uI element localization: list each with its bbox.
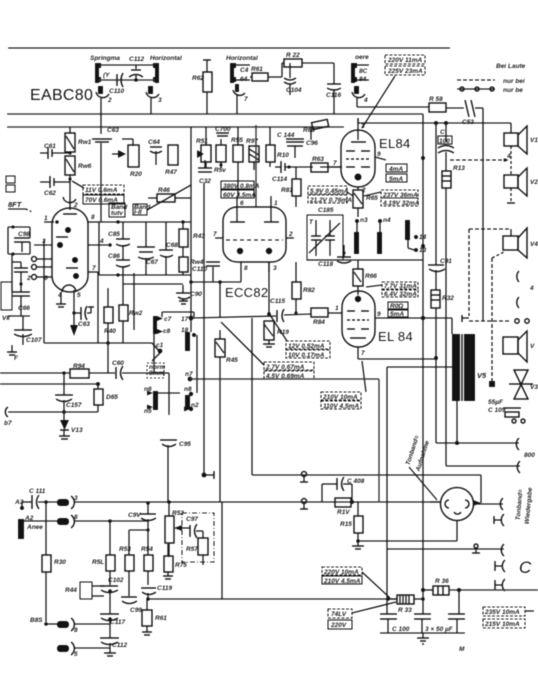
- wire ECC82 pin3 down: [267, 262, 271, 316]
- svg-text:C95: C95: [179, 441, 191, 448]
- svg-text:R5L: R5L: [92, 559, 104, 566]
- svg-text:210V 10mA: 210V 10mA: [322, 394, 358, 401]
- connector block left: [95, 63, 159, 83]
- svg-text:2.7V 0.67mA: 2.7V 0.67mA: [265, 364, 305, 371]
- resistor R84: [193, 305, 342, 326]
- svg-text:R81: R81: [281, 187, 293, 194]
- svg-text:2: 2: [288, 231, 293, 238]
- pin 2 bottom / resistor R65: [353, 187, 378, 217]
- ECC82 pin labels: [213, 231, 294, 272]
- wire B+ line: [423, 588, 538, 592]
- svg-text:EL84: EL84: [379, 136, 411, 151]
- svg-text:2: 2: [26, 275, 31, 282]
- EL84 top tube envelope: [341, 130, 375, 187]
- capacitor C104: [284, 63, 302, 95]
- svg-text:R55: R55: [231, 137, 243, 144]
- resistor R46: [148, 187, 191, 202]
- svg-text:R 22: R 22: [286, 52, 300, 59]
- svg-text:7: 7: [213, 231, 217, 238]
- svg-text:n4: n4: [383, 217, 391, 224]
- svg-text:380V 0.8mA: 380V 0.8mA: [223, 183, 260, 190]
- svg-text:C63: C63: [107, 127, 119, 134]
- wire AM bus: [7, 113, 423, 115]
- resistor D65: [94, 384, 118, 412]
- capacitor C90: [176, 285, 202, 304]
- svg-text:M: M: [459, 646, 465, 653]
- wire x134: [133, 273, 135, 330]
- annotation line to 210V box: [362, 361, 366, 392]
- svg-text:oere: oere: [355, 54, 369, 61]
- resistor R82: [292, 262, 315, 315]
- capacitor C53: [462, 100, 483, 321]
- volume tap symbol: [202, 471, 215, 479]
- pin 9 wire: [375, 151, 386, 160]
- svg-text:I-II: I-II: [134, 209, 142, 216]
- switch contacts 13 14: [405, 220, 427, 254]
- capacitor C117: [100, 614, 125, 626]
- svg-text:5mA: 5mA: [390, 311, 404, 318]
- svg-text:D65: D65: [106, 394, 118, 401]
- heater link: [123, 275, 183, 284]
- NF box outline: [252, 475, 481, 506]
- svg-text:R44: R44: [65, 587, 77, 594]
- label EL84 top: [379, 136, 411, 151]
- svg-text:R46: R46: [158, 187, 170, 194]
- annotation line from switch: [221, 322, 264, 365]
- resistor R58: [429, 96, 464, 112]
- pot R52: [129, 500, 190, 557]
- switch frame: [162, 312, 194, 317]
- resistor R44: [65, 582, 104, 599]
- capacitors C85 C86: [108, 222, 130, 275]
- svg-text:7: 7: [333, 160, 337, 167]
- svg-text:R66: R66: [365, 273, 377, 280]
- jack input b: [30, 617, 110, 634]
- resistor R47: [165, 145, 178, 176]
- wire B+ transformer feed: [387, 366, 452, 368]
- resistor R54: [141, 530, 153, 585]
- contact c7: [153, 316, 172, 334]
- svg-text:8C: 8C: [359, 68, 368, 75]
- svg-text:C90: C90: [190, 291, 202, 298]
- DIN connector: [441, 488, 474, 521]
- capacitor C95: [160, 440, 191, 502]
- wire ground bottom line: [387, 544, 504, 556]
- svg-text:220V: 220V: [330, 622, 347, 629]
- pin 7 bottom: [358, 347, 436, 359]
- box Band right: [109, 203, 128, 217]
- tube pin 4 right: [88, 238, 112, 247]
- resistor R50: [214, 139, 226, 174]
- svg-text:Rw2: Rw2: [129, 310, 143, 317]
- svg-text:C61: C61: [44, 143, 56, 150]
- svg-text:5mA: 5mA: [389, 176, 403, 183]
- svg-text:64: 64: [240, 76, 248, 83]
- dashed line speakers: [450, 153, 511, 162]
- wire x108 down: [62, 343, 108, 375]
- resistor R1V: [335, 498, 354, 516]
- capacitor C99: [121, 597, 142, 614]
- EL84 top interior: [346, 118, 370, 181]
- svg-text:Bei Laute: Bei Laute: [496, 63, 526, 70]
- label Bei Laute: [496, 63, 526, 70]
- jack chassis bottom: [300, 499, 308, 510]
- svg-text:Rw1: Rw1: [78, 139, 92, 146]
- svg-text:4.19V 32mA: 4.19V 32mA: [382, 200, 420, 207]
- resistor R53: [119, 530, 134, 596]
- svg-text:Anee: Anee: [26, 524, 43, 531]
- capacitor C66: [12, 282, 30, 316]
- svg-text:R62: R62: [192, 75, 204, 82]
- svg-text:5: 5: [74, 651, 78, 658]
- resistor R52b: [92, 521, 115, 585]
- label EABC80: [30, 87, 93, 104]
- svg-text:9: 9: [377, 151, 381, 158]
- tube top pin: [63, 196, 78, 214]
- svg-text:225V 23mA: 225V 23mA: [387, 68, 423, 75]
- svg-text:R15: R15: [340, 521, 352, 528]
- wire vertical bus x191: [190, 127, 192, 332]
- resistor Rw1: [65, 127, 92, 155]
- svg-text:c8: c8: [163, 328, 171, 335]
- svg-text:V2: V2: [530, 179, 538, 186]
- tube pin 3 left: [34, 238, 52, 245]
- resistor R22: [282, 52, 334, 77]
- wire grid line: [320, 166, 342, 168]
- svg-text:C 100: C 100: [392, 626, 410, 633]
- wire vertical x379: [378, 379, 380, 502]
- svg-text:C 144: C 144: [277, 132, 295, 139]
- pin 9 wire bottom EL84: [375, 311, 452, 320]
- resistor R43: [179, 222, 205, 247]
- jack T symbol: [494, 514, 504, 526]
- electrolytic C100 group: [380, 590, 465, 633]
- svg-text:8FT: 8FT: [8, 200, 23, 209]
- coil C63: [92, 114, 119, 222]
- contact c1: [152, 342, 164, 361]
- wire R94 line: [0, 363, 115, 378]
- svg-text:R5v: R5v: [214, 167, 226, 174]
- capacitor C102: [100, 577, 124, 614]
- capacitor C107: [8, 316, 42, 345]
- capacitor C114: [272, 161, 313, 183]
- svg-text:C63: C63: [78, 321, 90, 328]
- capacitor C144: [277, 132, 318, 158]
- svg-text:C: C: [440, 129, 445, 136]
- resistor R57: [186, 531, 208, 565]
- svg-text:n2: n2: [191, 402, 199, 409]
- contact n2: [184, 402, 199, 412]
- label oere: [355, 54, 369, 61]
- kohm boxes bottom: [388, 302, 408, 318]
- svg-text:110V 4.5mA: 110V 4.5mA: [323, 403, 359, 410]
- tube pin 5 bottom with arrow: [70, 290, 81, 336]
- svg-text:R32: R32: [442, 295, 454, 302]
- resistor R55: [231, 127, 243, 196]
- svg-text:C114: C114: [272, 176, 287, 183]
- resistor Rw6: [65, 156, 92, 196]
- resistor R62: [192, 60, 212, 114]
- capacitor C112b: [100, 619, 127, 653]
- dash-dot box: [182, 513, 214, 562]
- annotation boxes 235V: [483, 607, 534, 628]
- capacitor C94: [128, 501, 156, 531]
- annotation line to DIN: [409, 467, 437, 500]
- resistor R81: [281, 167, 301, 207]
- svg-text:8: 8: [244, 265, 248, 272]
- svg-text:2: 2: [73, 202, 78, 209]
- capacitor C109: [488, 399, 525, 423]
- svg-text:C110: C110: [109, 88, 124, 95]
- svg-text:R61: R61: [155, 615, 167, 622]
- dashed speaker box: [469, 229, 511, 387]
- EL84 bottom interior: [347, 296, 369, 338]
- svg-text:7: 7: [361, 350, 365, 357]
- capacitor C112: [129, 56, 144, 82]
- svg-text:C96: C96: [306, 140, 318, 147]
- annotation line to EL84: [362, 76, 395, 128]
- svg-text:R 58: R 58: [429, 96, 443, 103]
- capacitor C81: [428, 258, 452, 290]
- wire DIN right jack: [474, 498, 503, 510]
- svg-text:B8S: B8S: [30, 617, 43, 624]
- svg-text:C110: C110: [192, 266, 207, 273]
- svg-text:5.9V 0.45mA: 5.9V 0.45mA: [310, 188, 349, 195]
- jack 2: [96, 86, 112, 114]
- svg-text:V13: V13: [71, 427, 83, 434]
- tube pin 7 right: [88, 265, 98, 343]
- svg-text:3: 3: [158, 97, 162, 104]
- svg-text:V1: V1: [530, 137, 538, 144]
- wire vertical gray x256: [255, 125, 257, 207]
- svg-text:8: 8: [91, 214, 95, 221]
- svg-text:b7: b7: [4, 420, 12, 427]
- svg-text:R63: R63: [312, 156, 324, 163]
- wire transformer secondary: [456, 401, 458, 443]
- jack 4: [352, 86, 429, 107]
- resistor R97 hatched: [246, 138, 259, 170]
- resistor R10: [266, 127, 289, 167]
- svg-text:55µF: 55µF: [488, 399, 504, 406]
- capacitor C60: [112, 360, 154, 380]
- resistor R61b: [142, 599, 167, 635]
- svg-text:C104: C104: [286, 87, 302, 94]
- capacitor C118: [318, 245, 351, 268]
- svg-text:R61: R61: [251, 66, 263, 73]
- wire gray line left: [0, 382, 100, 386]
- svg-text:4: 4: [506, 153, 511, 160]
- dashed box norm 8mm: [147, 363, 165, 378]
- jack input 8: [24, 514, 78, 528]
- svg-text:4: 4: [99, 238, 104, 245]
- band switch boxes: [6, 176, 15, 192]
- svg-text:C185: C185: [318, 207, 334, 214]
- svg-text:C66: C66: [18, 305, 30, 312]
- svg-text:n3: n3: [360, 217, 368, 224]
- svg-text:C157: C157: [66, 402, 82, 409]
- svg-text:5: 5: [77, 292, 81, 299]
- svg-text:R 33: R 33: [398, 607, 412, 614]
- svg-text:n5: n5: [144, 408, 152, 415]
- annotation boxes 220V bottom: [322, 567, 390, 598]
- svg-text:7: 7: [92, 265, 96, 272]
- svg-text:C99: C99: [130, 607, 142, 614]
- svg-text:C119: C119: [157, 585, 172, 592]
- svg-text:C97: C97: [186, 516, 198, 523]
- svg-text:R45: R45: [226, 357, 238, 364]
- ground bottom left: [104, 653, 116, 656]
- tube pin 4 ground: [56, 292, 66, 307]
- svg-text:R82: R82: [303, 287, 315, 294]
- annotation boxes 237V: [364, 190, 420, 207]
- wire main NF line: [74, 501, 441, 503]
- trimmer box C185: [307, 207, 343, 260]
- svg-text:R 36: R 36: [435, 578, 449, 585]
- resistor R75: [163, 544, 187, 579]
- svg-text:C102: C102: [108, 577, 124, 584]
- contacts n6 n5: [144, 386, 180, 415]
- contact 18: [181, 327, 197, 393]
- svg-text:3: 3: [74, 495, 78, 502]
- resistor R20: [128, 145, 142, 178]
- svg-text:n6: n6: [144, 386, 152, 393]
- voltage boxes ECC82 top: [221, 181, 260, 199]
- resistor R15: [340, 502, 363, 543]
- wire x436 column: [435, 123, 437, 265]
- svg-text:6: 6: [240, 200, 244, 207]
- capacitor C408: [322, 477, 365, 502]
- svg-text:R1V: R1V: [337, 509, 350, 516]
- svg-text:Rw6: Rw6: [78, 163, 92, 170]
- svg-text:1: 1: [335, 305, 339, 312]
- resistor R63: [311, 156, 342, 172]
- svg-text:17: 17: [181, 316, 189, 323]
- wire R30 column: [44, 500, 48, 555]
- svg-text:C112: C112: [129, 56, 144, 63]
- label A2: [24, 515, 34, 522]
- tube interior: [56, 227, 79, 292]
- wire to transformer: [452, 315, 469, 334]
- wire dark vertical x387: [386, 367, 388, 614]
- svg-text:R54: R54: [141, 546, 153, 553]
- wire verticals center: [204, 183, 252, 502]
- svg-text:R68: R68: [303, 127, 315, 134]
- TA bar: [18, 519, 43, 539]
- svg-text:74LV: 74LV: [331, 611, 347, 618]
- wire x222 column: [222, 502, 397, 599]
- resistor R61: [250, 66, 282, 81]
- svg-text:R84: R84: [313, 319, 325, 326]
- resistor R45: [215, 330, 238, 379]
- svg-text:220V 11mA: 220V 11mA: [387, 57, 423, 64]
- wire x169 to C95: [154, 330, 169, 415]
- svg-text:Springma: Springma: [90, 55, 120, 62]
- jack 3: [146, 86, 162, 114]
- svg-text:R57: R57: [186, 546, 198, 553]
- capacitor C100 right: [438, 123, 454, 171]
- resistor R36: [433, 578, 449, 595]
- label 8FT: [8, 200, 32, 212]
- svg-text:Horizontal: Horizontal: [226, 55, 258, 62]
- capacitor C64: [148, 139, 162, 165]
- svg-text:60V 3.5mA: 60V 3.5mA: [223, 192, 256, 199]
- capacitor C61: [40, 143, 70, 159]
- wire bottom of switch area: [307, 259, 423, 261]
- speaker V1: [483, 123, 538, 154]
- label A3: [14, 499, 24, 510]
- label Tonband Wiedergabe: [515, 487, 534, 525]
- resistor R30: [42, 555, 66, 622]
- jack input 3: [57, 495, 78, 509]
- svg-text:R0Ω: R0Ω: [390, 303, 403, 310]
- trimmer C67: [137, 222, 158, 275]
- resistor R33: [386, 595, 425, 614]
- svg-text:1: 1: [44, 215, 48, 222]
- switch contacts n3 n4: [354, 217, 391, 254]
- svg-text:C91: C91: [440, 258, 452, 265]
- svg-text:C 111: C 111: [29, 488, 46, 495]
- dashed link: [469, 319, 529, 323]
- speaker V2: [504, 146, 538, 203]
- band boxes: [133, 185, 191, 216]
- svg-text:210V 4.5mA: 210V 4.5mA: [323, 578, 361, 585]
- svg-text:tutv: tutv: [111, 210, 123, 217]
- svg-text:7.7V 31mA: 7.7V 31mA: [384, 283, 417, 290]
- resistor Rw4: [179, 247, 204, 275]
- svg-text:6.4V 32mA: 6.4V 32mA: [384, 291, 417, 298]
- tube pin stub circles: [26, 257, 52, 283]
- contact 17: [181, 316, 193, 323]
- wire second NF line: [74, 519, 148, 523]
- legend dashed: [457, 78, 525, 94]
- resistor R68 tilted: [303, 119, 329, 140]
- resistor R66: [353, 260, 377, 295]
- svg-text:4: 4: [363, 97, 368, 104]
- kohm boxes: [386, 164, 407, 183]
- resistor R13 right: [442, 165, 465, 466]
- capacitor left top: [8, 225, 30, 255]
- label ECC82: [225, 285, 268, 300]
- left box Vk: [1, 282, 12, 322]
- coil C700: [215, 126, 231, 136]
- svg-text:C98: C98: [18, 231, 30, 238]
- wire FM bus: [7, 126, 344, 128]
- svg-text:8: 8: [74, 514, 78, 521]
- phase plug V3: [509, 370, 538, 399]
- capacitor C115: [270, 298, 285, 322]
- connector block mid: [230, 63, 250, 83]
- headphone jack arcs right: [517, 271, 534, 308]
- transformer V5: [452, 334, 487, 401]
- svg-text:V4: V4: [530, 241, 538, 248]
- diode arrow: [112, 139, 133, 158]
- svg-text:9: 9: [377, 311, 381, 318]
- EABC80 tube envelope: [52, 208, 88, 292]
- svg-text:235V 10mA: 235V 10mA: [484, 609, 520, 616]
- svg-text:C67: C67: [146, 259, 158, 266]
- svg-text:C62: C62: [44, 190, 56, 197]
- capacitor C62: [40, 176, 70, 197]
- contact n8: [184, 386, 193, 409]
- svg-text:nur be: nur be: [503, 87, 523, 94]
- ground F: [7, 345, 19, 362]
- output 800ohm jacks: [436, 438, 535, 473]
- svg-text:C700: C700: [215, 126, 231, 133]
- svg-text:V3: V3: [530, 384, 538, 391]
- jack 7: [233, 84, 248, 114]
- annotation boxes 2.7V: [264, 362, 314, 380]
- wire DIN bottom: [456, 520, 458, 541]
